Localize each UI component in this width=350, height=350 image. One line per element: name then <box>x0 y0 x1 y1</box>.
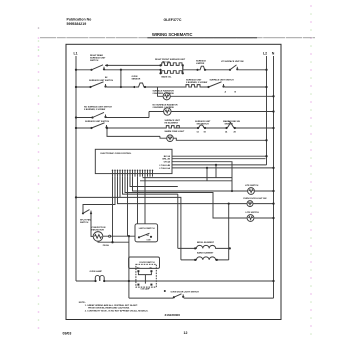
wire riser to door switch box2 and door light row <box>128 236 130 298</box>
svg-text:ELECTRONIC OVEN CONTROL: ELECTRONIC OVEN CONTROL <box>101 153 133 155</box>
broil right terminal dot <box>229 247 231 249</box>
junction light3 N <box>272 217 274 219</box>
door switch T wire <box>138 272 151 283</box>
element surface unit lower coil <box>161 71 184 74</box>
door latch switch box <box>135 224 158 242</box>
oven light 2 circle <box>247 201 253 207</box>
comb drop wire to lamp2 row <box>118 177 247 204</box>
terminal square top-right <box>150 270 152 272</box>
switch S7 <box>197 125 206 129</box>
wire split pan to motor <box>91 215 93 237</box>
svg-text:09/03: 09/03 <box>63 331 72 335</box>
svg-text:2 BURNER, 2 SCREW: 2 BURNER, 2 SCREW <box>153 107 174 109</box>
row2 wire from L1 to L2 <box>76 86 267 88</box>
svg-text:LT BLU 4B: LT BLU 4B <box>160 164 171 167</box>
comb drop wire to latch box left pin <box>137 177 139 224</box>
schematic outer border <box>66 44 281 319</box>
oven light 3 circle <box>247 215 254 222</box>
svg-text:HE ELEMENT: HE ELEMENT <box>165 122 179 124</box>
wire lamp C left elbow <box>160 136 167 138</box>
svg-text:1. GREAT WIRING ARE ALL CENT: 1. GREAT WIRING ARE ALL CENTRAL SET 2A S… <box>85 304 138 307</box>
header rule line <box>40 37 315 39</box>
svg-text:316228306: 316228306 <box>165 313 181 317</box>
svg-text:SWITCH: SWITCH <box>80 222 89 224</box>
svg-text:GLEF377C: GLEF377C <box>164 18 182 22</box>
switch S8 <box>225 121 236 129</box>
convection fan motor circle <box>93 232 103 242</box>
junction motor wire riser <box>128 235 130 237</box>
element warm zone on rowD <box>165 126 181 128</box>
svg-text:LITE SWITCH: LITE SWITCH <box>246 212 260 214</box>
wire L1 lower feed <box>76 197 181 260</box>
junction lamp C L2 <box>265 139 267 141</box>
svg-text:BRL 2B: BRL 2B <box>163 159 171 161</box>
junction row1 L2 <box>265 69 267 71</box>
svg-text:OVEN DOOR LIGHT SW: OVEN DOOR LIGHT SW <box>243 198 266 200</box>
row1 wire from L1 to L2 <box>76 69 267 71</box>
bake element coil <box>181 257 229 260</box>
junction upper branch <box>106 64 108 66</box>
EOC wire pin 6A to N <box>172 167 274 169</box>
comb drop wire to latch box row <box>127 177 129 237</box>
indicator lamp C circle <box>167 135 174 142</box>
svg-text:SWITCH: SWITCH <box>90 60 99 62</box>
mesh drop from pin 6A wire <box>140 168 232 181</box>
svg-text:WIRING SCHEMATIC: WIRING SCHEMATIC <box>152 32 192 37</box>
switch S3 surface unit <box>89 82 106 88</box>
svg-text:L1: L1 <box>74 52 78 56</box>
svg-text:2 BURNER, 2 SCREW: 2 BURNER, 2 SCREW <box>84 109 105 111</box>
left margin perforation dots <box>38 27 40 329</box>
junction light1 N <box>272 190 274 192</box>
junction pin 6A N <box>272 167 274 169</box>
oven door light switch row <box>129 297 274 299</box>
junction lamp row box2 <box>128 280 130 282</box>
junction mesh 4B <box>215 164 217 166</box>
junction broil riser lamp2 row <box>228 203 230 205</box>
svg-text:LT BLU 6A: LT BLU 6A <box>160 167 171 170</box>
right margin perforation dots <box>310 5 312 335</box>
svg-text:LITE SWITCH: LITE SWITCH <box>245 185 259 187</box>
junction tie row2 <box>120 86 122 88</box>
bake right terminal dot <box>216 259 218 261</box>
terminal square bottom-left <box>137 284 139 286</box>
svg-text:LIMITER: LIMITER <box>196 63 205 65</box>
rowC wire from L1 <box>76 117 149 119</box>
wire label dot <box>164 290 166 292</box>
L1 bus wire <box>75 56 77 281</box>
junction dot row1 <box>120 69 122 71</box>
wire motor output to latch box <box>103 235 135 237</box>
wire broil left riser <box>177 194 179 248</box>
svg-text:SURFACE UNIT SWITCH: SURFACE UNIT SWITCH <box>210 78 235 81</box>
wire lamp B left to row C riser <box>149 112 164 118</box>
svg-text:OR 4A: OR 4A <box>164 161 171 164</box>
svg-text:Publication No: Publication No <box>67 18 93 22</box>
pushbutton limiter on row1 <box>196 66 206 71</box>
broil left terminal dot <box>194 247 196 249</box>
junction lamp row N <box>272 280 274 282</box>
comb drop wire to motor row <box>112 177 114 243</box>
indicator lamp B circle <box>164 108 171 115</box>
svg-text:SURFACE UNIT SWITCH: SURFACE UNIT SWITCH <box>89 79 114 82</box>
wire oven light 3 to N <box>254 217 274 219</box>
junction branch <box>106 127 108 129</box>
switch S4 surface unit <box>207 82 224 88</box>
svg-text:12: 12 <box>184 331 188 335</box>
junction lamp B N <box>272 110 274 112</box>
switch S2 HT surface unit <box>229 65 239 71</box>
branch from S6 output down <box>107 128 160 136</box>
switch S1 bake line switch <box>90 65 105 71</box>
oven lamp symbol <box>95 275 104 281</box>
mesh drop from pin 4B wire <box>143 165 233 178</box>
comb drop wire to lamp3 feed <box>125 177 247 218</box>
svg-text:NOTE:: NOTE: <box>79 302 86 304</box>
junction lamp A N <box>272 95 274 97</box>
split pan switch <box>82 210 92 215</box>
rowD wire from L1 to N <box>76 127 274 129</box>
comb drop wire to latch box right pin <box>144 177 146 224</box>
lower coil jog down <box>160 70 162 74</box>
comb drop wire to broil feed <box>123 177 178 195</box>
junction row2 L2 <box>265 86 267 88</box>
comb drop wire mesh 186 <box>130 177 178 187</box>
comb drop wire to oven light row <box>133 177 248 191</box>
wire lamp B to N <box>171 111 274 113</box>
junction pin 2A L2 <box>265 155 267 157</box>
broil element coil <box>178 245 229 248</box>
indicator lamp A circle <box>163 93 170 100</box>
tie coils to row1 after coil <box>182 65 184 73</box>
junction L1 row2 <box>75 86 77 88</box>
door switch inner dashed box <box>136 264 156 287</box>
svg-text:2 BURNER, 2 SCREW: 2 BURNER, 2 SCREW <box>186 82 207 84</box>
svg-text:BAKE ELEMENT: BAKE ELEMENT <box>197 252 214 255</box>
wire lamp C to L2 <box>173 138 266 140</box>
EOC connector comb ticks <box>113 170 153 177</box>
svg-text:OVEN DOOR LIGHT SWITCH: OVEN DOOR LIGHT SWITCH <box>171 292 200 294</box>
junction jog <box>159 69 161 71</box>
junction comb drop motor loop <box>111 241 113 243</box>
N bus wire <box>273 56 275 298</box>
lamp terminal dots <box>94 280 96 282</box>
terminal square bottom-right <box>150 284 152 286</box>
door switch box2 outer <box>129 257 160 268</box>
terminal square top-left <box>137 270 139 272</box>
stub from row2 down to lamp A <box>158 87 164 96</box>
junction rowD N <box>272 127 274 129</box>
oven door light switch blades <box>173 294 185 299</box>
svg-text:LATCH SWITCH: LATCH SWITCH <box>139 227 155 230</box>
upper branch wire from switch tip <box>105 64 161 66</box>
wire lamp A to N <box>170 95 273 97</box>
element surface unit upper coil <box>161 63 184 66</box>
EOC wire pin 4A down to light row <box>172 162 232 191</box>
junction light2 N <box>272 202 274 204</box>
svg-text:BAKE OIL: BAKE OIL <box>162 76 173 79</box>
EOC electronic oven control box <box>95 149 172 173</box>
svg-text:FROM OVEN BLOWER AND CAUTIONS.: FROM OVEN BLOWER AND CAUTIONS. <box>88 307 130 310</box>
svg-text:FB 2A: FB 2A <box>103 244 110 247</box>
motor output terminal <box>109 235 111 237</box>
svg-text:OVEN LAMP: OVEN LAMP <box>90 270 103 273</box>
comb drop wire short <box>119 177 121 198</box>
tie upper to main at coil end <box>182 65 184 69</box>
junction L1 rowD <box>75 127 77 129</box>
svg-text:5995384219: 5995384219 <box>67 22 87 26</box>
EOC connector comb pin dots <box>112 170 154 172</box>
svg-text:SENSOR: SENSOR <box>132 79 141 81</box>
upper coil terminal dots <box>159 64 161 66</box>
lower coil terminal dots <box>159 72 161 74</box>
wire oven light 1 to N <box>254 190 273 192</box>
svg-text:L2: L2 <box>263 51 267 55</box>
wire motor bottom loop <box>98 241 129 242</box>
wire broil right riser <box>228 204 230 260</box>
junction L1 lower feed <box>75 196 77 198</box>
svg-text:BROIL ELEMENT: BROIL ELEMENT <box>197 242 215 244</box>
svg-text:COM: COM <box>147 240 152 242</box>
comb drop wire to split pan feed <box>83 177 115 213</box>
element surface unit row2 <box>185 85 202 87</box>
wire tie row1 row2 <box>120 70 122 87</box>
svg-text:SURFACE UNIT SWITCH: SURFACE UNIT SWITCH <box>85 120 110 123</box>
EOC wire pin 2A to L2 <box>172 155 267 157</box>
svg-text:2. CONTINUITY SIGN - IS NO K: 2. CONTINUITY SIGN - IS NO KEY APPEAR ON… <box>85 309 149 312</box>
pushbutton switch on row2 <box>133 83 146 88</box>
bake left terminal dot <box>194 259 196 261</box>
L2 bus wire <box>266 56 268 165</box>
oven lamp row wire L1 to N <box>76 280 274 282</box>
svg-text:COM LAMP: COM LAMP <box>141 288 151 291</box>
latch switch contacts <box>138 233 152 238</box>
svg-text:WARM ZONE LIGHT: WARM ZONE LIGHT <box>165 130 185 133</box>
junction pin 4A light row <box>231 190 233 192</box>
switch S5 <box>91 112 106 118</box>
junction L1 rowC <box>75 116 77 118</box>
junction mesh 6A <box>206 167 208 169</box>
oven light 1 circle <box>248 188 255 195</box>
junction L1 row1 <box>75 69 77 71</box>
wire oven light 2 to N <box>253 203 274 205</box>
EOC wire pin 2B to L2 <box>172 158 266 160</box>
svg-text:N: N <box>272 51 275 55</box>
switch S6 <box>90 123 107 129</box>
svg-text:HT SURFACE UNIT SW: HT SURFACE UNIT SW <box>221 60 244 63</box>
EOC wire pin 4B to L2 corner <box>172 164 267 166</box>
